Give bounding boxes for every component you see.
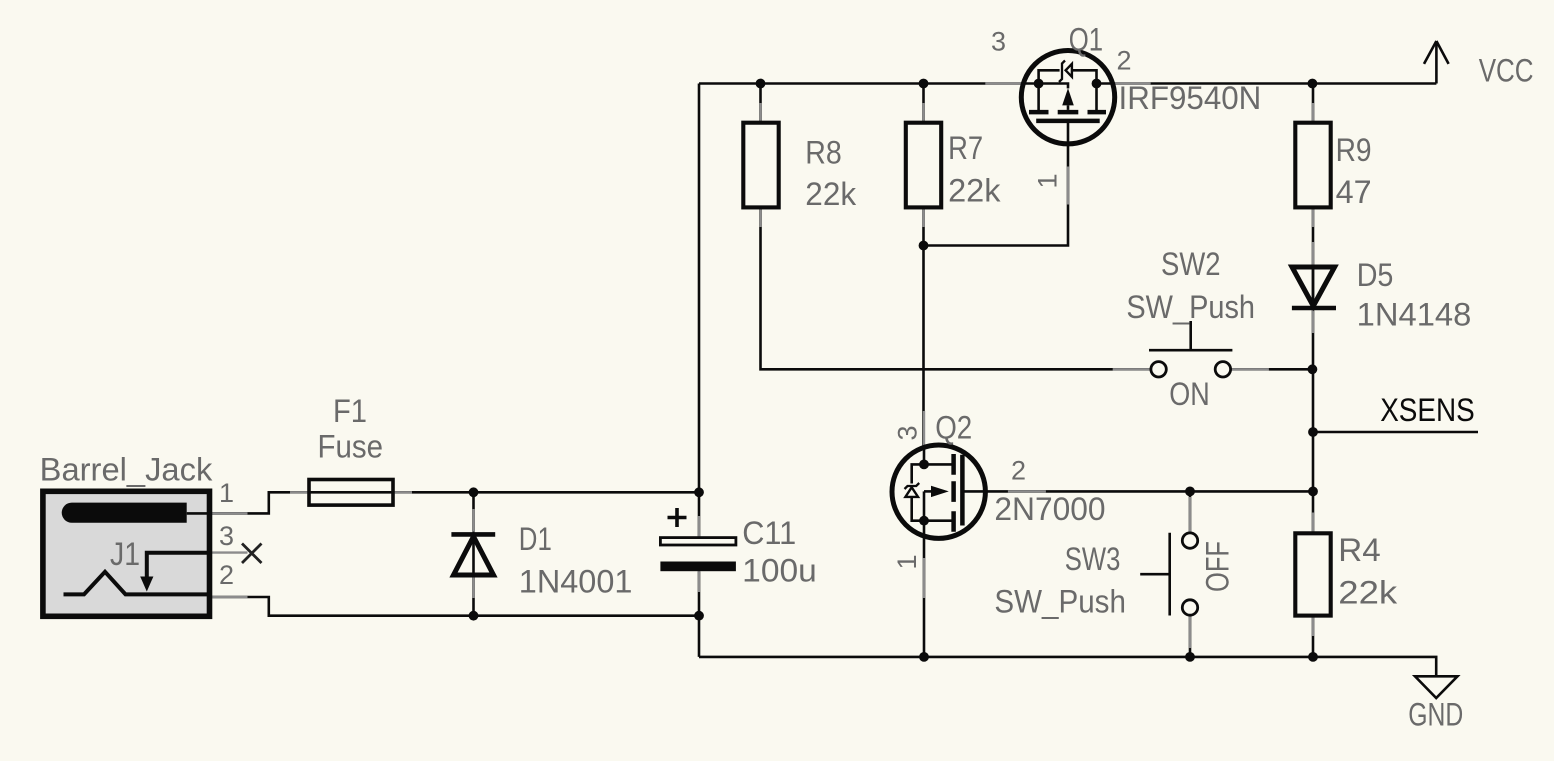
svg-text:ON: ON [1169,376,1210,412]
svg-text:J1: J1 [110,536,140,572]
svg-text:22k: 22k [1338,574,1398,610]
svg-text:22k: 22k [805,176,857,212]
svg-text:Fuse: Fuse [318,429,384,465]
svg-text:R4: R4 [1338,532,1380,568]
svg-text:XSENS: XSENS [1380,392,1475,428]
svg-text:100u: 100u [742,553,817,589]
svg-text:Q1: Q1 [1069,22,1103,58]
svg-text:1N4148: 1N4148 [1357,296,1472,332]
svg-text:2: 2 [1011,456,1026,486]
svg-text:47: 47 [1336,174,1372,210]
svg-text:D5: D5 [1357,257,1394,293]
svg-text:3: 3 [893,425,923,440]
svg-text:C11: C11 [742,515,796,551]
svg-text:3: 3 [219,521,234,551]
svg-text:2: 2 [219,560,234,590]
svg-text:1: 1 [1033,173,1063,188]
svg-text:D1: D1 [519,521,552,557]
svg-text:3: 3 [991,27,1006,57]
svg-text:1: 1 [892,554,922,569]
svg-text:GND: GND [1408,696,1463,732]
svg-text:1: 1 [219,478,234,508]
svg-text:OFF: OFF [1200,541,1236,592]
svg-text:F1: F1 [333,393,367,429]
svg-text:R9: R9 [1336,132,1372,168]
svg-text:IRF9540N: IRF9540N [1119,80,1262,116]
svg-text:2N7000: 2N7000 [994,491,1105,527]
svg-text:1N4001: 1N4001 [519,563,633,599]
svg-text:SW2: SW2 [1161,246,1221,282]
svg-text:Q2: Q2 [935,410,972,446]
svg-text:R7: R7 [948,130,983,166]
svg-text:R8: R8 [805,135,842,171]
svg-text:22k: 22k [948,173,1001,209]
svg-text:SW_Push: SW_Push [1126,289,1255,325]
svg-text:2: 2 [1117,46,1132,76]
svg-text:Barrel_Jack: Barrel_Jack [40,452,214,488]
svg-text:VCC: VCC [1479,53,1534,89]
svg-text:SW3: SW3 [1065,541,1121,577]
svg-text:SW_Push: SW_Push [994,584,1126,620]
